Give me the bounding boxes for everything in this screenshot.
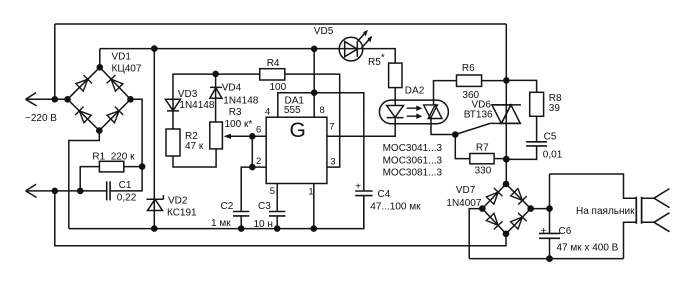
svg-text:47 к: 47 к [185,141,204,152]
R3 wiper arrowhead [224,134,232,139]
connector pins with fork arrows [642,189,670,232]
svg-text:КС191: КС191 [167,208,197,219]
svg-text:C1: C1 [119,180,132,191]
diode VD1 bottom-left [75,107,91,123]
capacitor C3 [269,212,285,216]
wire top rail [55,23,507,25]
svg-text:DA2: DA2 [405,86,425,97]
svg-text:10 н: 10 н [254,219,273,230]
svg-text:+: + [355,182,361,193]
svg-text:330: 330 [475,165,492,176]
zener VD2 [147,195,164,211]
svg-text:1N4007: 1N4007 [446,198,481,209]
svg-text:VD6: VD6 [472,99,492,110]
svg-text:VD5: VD5 [314,26,334,37]
svg-text:~220 В: ~220 В [25,113,57,124]
wire R7 right [494,158,506,160]
wire main mains vertical [505,24,507,184]
diode VD1 top-left [76,75,92,91]
wire ground rail [69,196,364,229]
optocoupler DA2 oval [379,100,448,124]
wire bridge minus to ground rail [69,131,100,229]
wire opto triac bottom to gate node [431,119,455,135]
svg-text:C2: C2 [221,201,234,212]
wire terminal 1 [26,98,68,100]
svg-text:555: 555 [284,105,301,116]
svg-text:МОС3081...3: МОС3081...3 [383,167,443,178]
wire R2 R3 bottom U [173,149,216,167]
wire VD7 left vertex link [469,209,482,259]
svg-text:R6: R6 [462,63,475,74]
svg-text:R7: R7 [476,142,489,153]
resistor R6 [457,75,482,86]
svg-text:3: 3 [330,157,335,168]
svg-text:R5: R5 [368,57,381,68]
svg-text:47...100 мк: 47...100 мк [370,202,421,213]
capacitor C4 [355,191,372,196]
svg-text:0,01: 0,01 [543,149,563,160]
wire triac gate diagonal [455,123,490,134]
svg-text:R3: R3 [229,107,242,118]
svg-text:На паяльник: На паяльник [576,206,635,217]
wire C4 bottom [363,196,365,229]
wire load box outline bottom [469,222,636,258]
connector bars [636,197,641,224]
wire R1 right link [124,166,142,168]
svg-text:1N4148: 1N4148 [179,100,214,111]
wire terminal 2 [26,190,107,192]
wire C6 column [549,174,551,259]
svg-text:*: * [381,53,385,64]
svg-text:1: 1 [308,187,313,198]
diode VD7 bottom-right [511,213,527,229]
capacitor C5 [526,142,547,146]
resistor R1 [99,161,123,172]
wire R3 wiper arrow line [228,135,252,137]
svg-text:8: 8 [320,105,325,116]
capacitor C6 [539,233,560,238]
bridge VD1 [68,67,131,130]
svg-text:2: 2 [256,156,261,167]
wire VD2 column [153,49,155,229]
svg-text:6: 6 [256,124,261,135]
svg-text:7: 7 [329,122,334,133]
wire load box outline top [550,174,637,198]
svg-text:R1: R1 [92,152,105,163]
resistor R8 [530,92,544,116]
resistor R7 [470,154,494,164]
svg-text:VD1: VD1 [112,51,132,62]
svg-text:G: G [290,119,306,142]
svg-text:МОС3061...3: МОС3061...3 [383,155,443,166]
svg-text:VD2: VD2 [168,196,188,207]
svg-text:100: 100 [270,82,287,93]
op-amp timer DA1 555 box [266,117,327,183]
wire bridge right to R1 C1 node [110,99,142,191]
wire pin3 to R4 to VD3 column [173,74,340,167]
bridge VD7 [482,184,530,234]
pin number labels [256,105,336,198]
diode VD1 top-right [107,75,123,91]
svg-text:VD3: VD3 [178,89,198,100]
wire R1 left link [80,167,99,191]
diode VD7 top-right [511,189,527,205]
wire C3 pin5 [276,184,278,229]
wire gate node to R7 [455,135,470,159]
diode VD7 bottom-left [486,213,502,229]
resistor R2 [166,129,180,156]
capacitor C2 [233,212,249,216]
wire left terminal 1 riser [54,24,56,99]
svg-text:C5: C5 [544,131,557,142]
svg-text:1 мк: 1 мк [211,218,231,229]
resistor R3 [210,122,223,149]
diode VD3 [165,99,180,111]
DA2 internal led [387,106,404,118]
wire R8 branch [506,80,536,159]
wire R6 right [482,80,507,82]
wire VD7 right vertex link [531,208,550,210]
resistor R5 [389,63,402,88]
wire bridge top riser [99,49,101,68]
diode VD7 top-left [486,188,502,204]
svg-text:C3: C3 [258,201,271,212]
svg-text:220 к: 220 к [111,152,135,163]
wire supply rail [100,49,395,64]
wire pin8 riser [313,49,315,117]
wire R6 left to opto triac [434,81,457,105]
wire neutral drop [55,191,506,246]
resistor R4 [260,69,285,80]
svg-text:VD7: VD7 [456,185,476,196]
svg-text:+: + [541,226,547,237]
svg-text:1N4148: 1N4148 [223,96,258,107]
svg-text:47 мк x 400 В: 47 мк x 400 В [557,242,619,253]
wire pin6 pin2 node [252,136,266,167]
svg-text:4: 4 [265,106,270,117]
diode VD1 bottom-right [107,107,123,123]
DA2 internal triac [424,105,442,119]
wire R5 to opto led [394,88,396,106]
svg-text:0,22: 0,22 [117,193,137,204]
wire C2 link [241,167,252,229]
svg-text:VD4: VD4 [222,82,242,93]
DA2 light arrows [407,108,419,116]
triac VD6 [490,105,521,124]
wire pin7 to opto led [327,119,395,137]
svg-text:5: 5 [270,186,275,197]
diode VD4 [210,87,222,98]
svg-text:39: 39 [549,103,561,114]
wire pin4 V+ [278,93,364,191]
terminal arrow 1 [26,93,37,106]
wire pin1 [313,184,315,229]
LED VD5 [339,31,371,61]
svg-text:R4: R4 [267,58,280,69]
svg-text:ВТ136: ВТ136 [464,110,493,121]
svg-text:C6: C6 [559,226,572,237]
svg-text:C4: C4 [378,189,391,200]
terminal arrow 2 [26,184,37,197]
capacitor C1 [107,181,110,200]
svg-text:100 к*: 100 к* [225,119,253,130]
svg-text:МОС3041...3: МОС3041...3 [383,143,443,154]
wire VD4 column [215,74,217,122]
svg-text:КЦ407: КЦ407 [112,64,142,75]
